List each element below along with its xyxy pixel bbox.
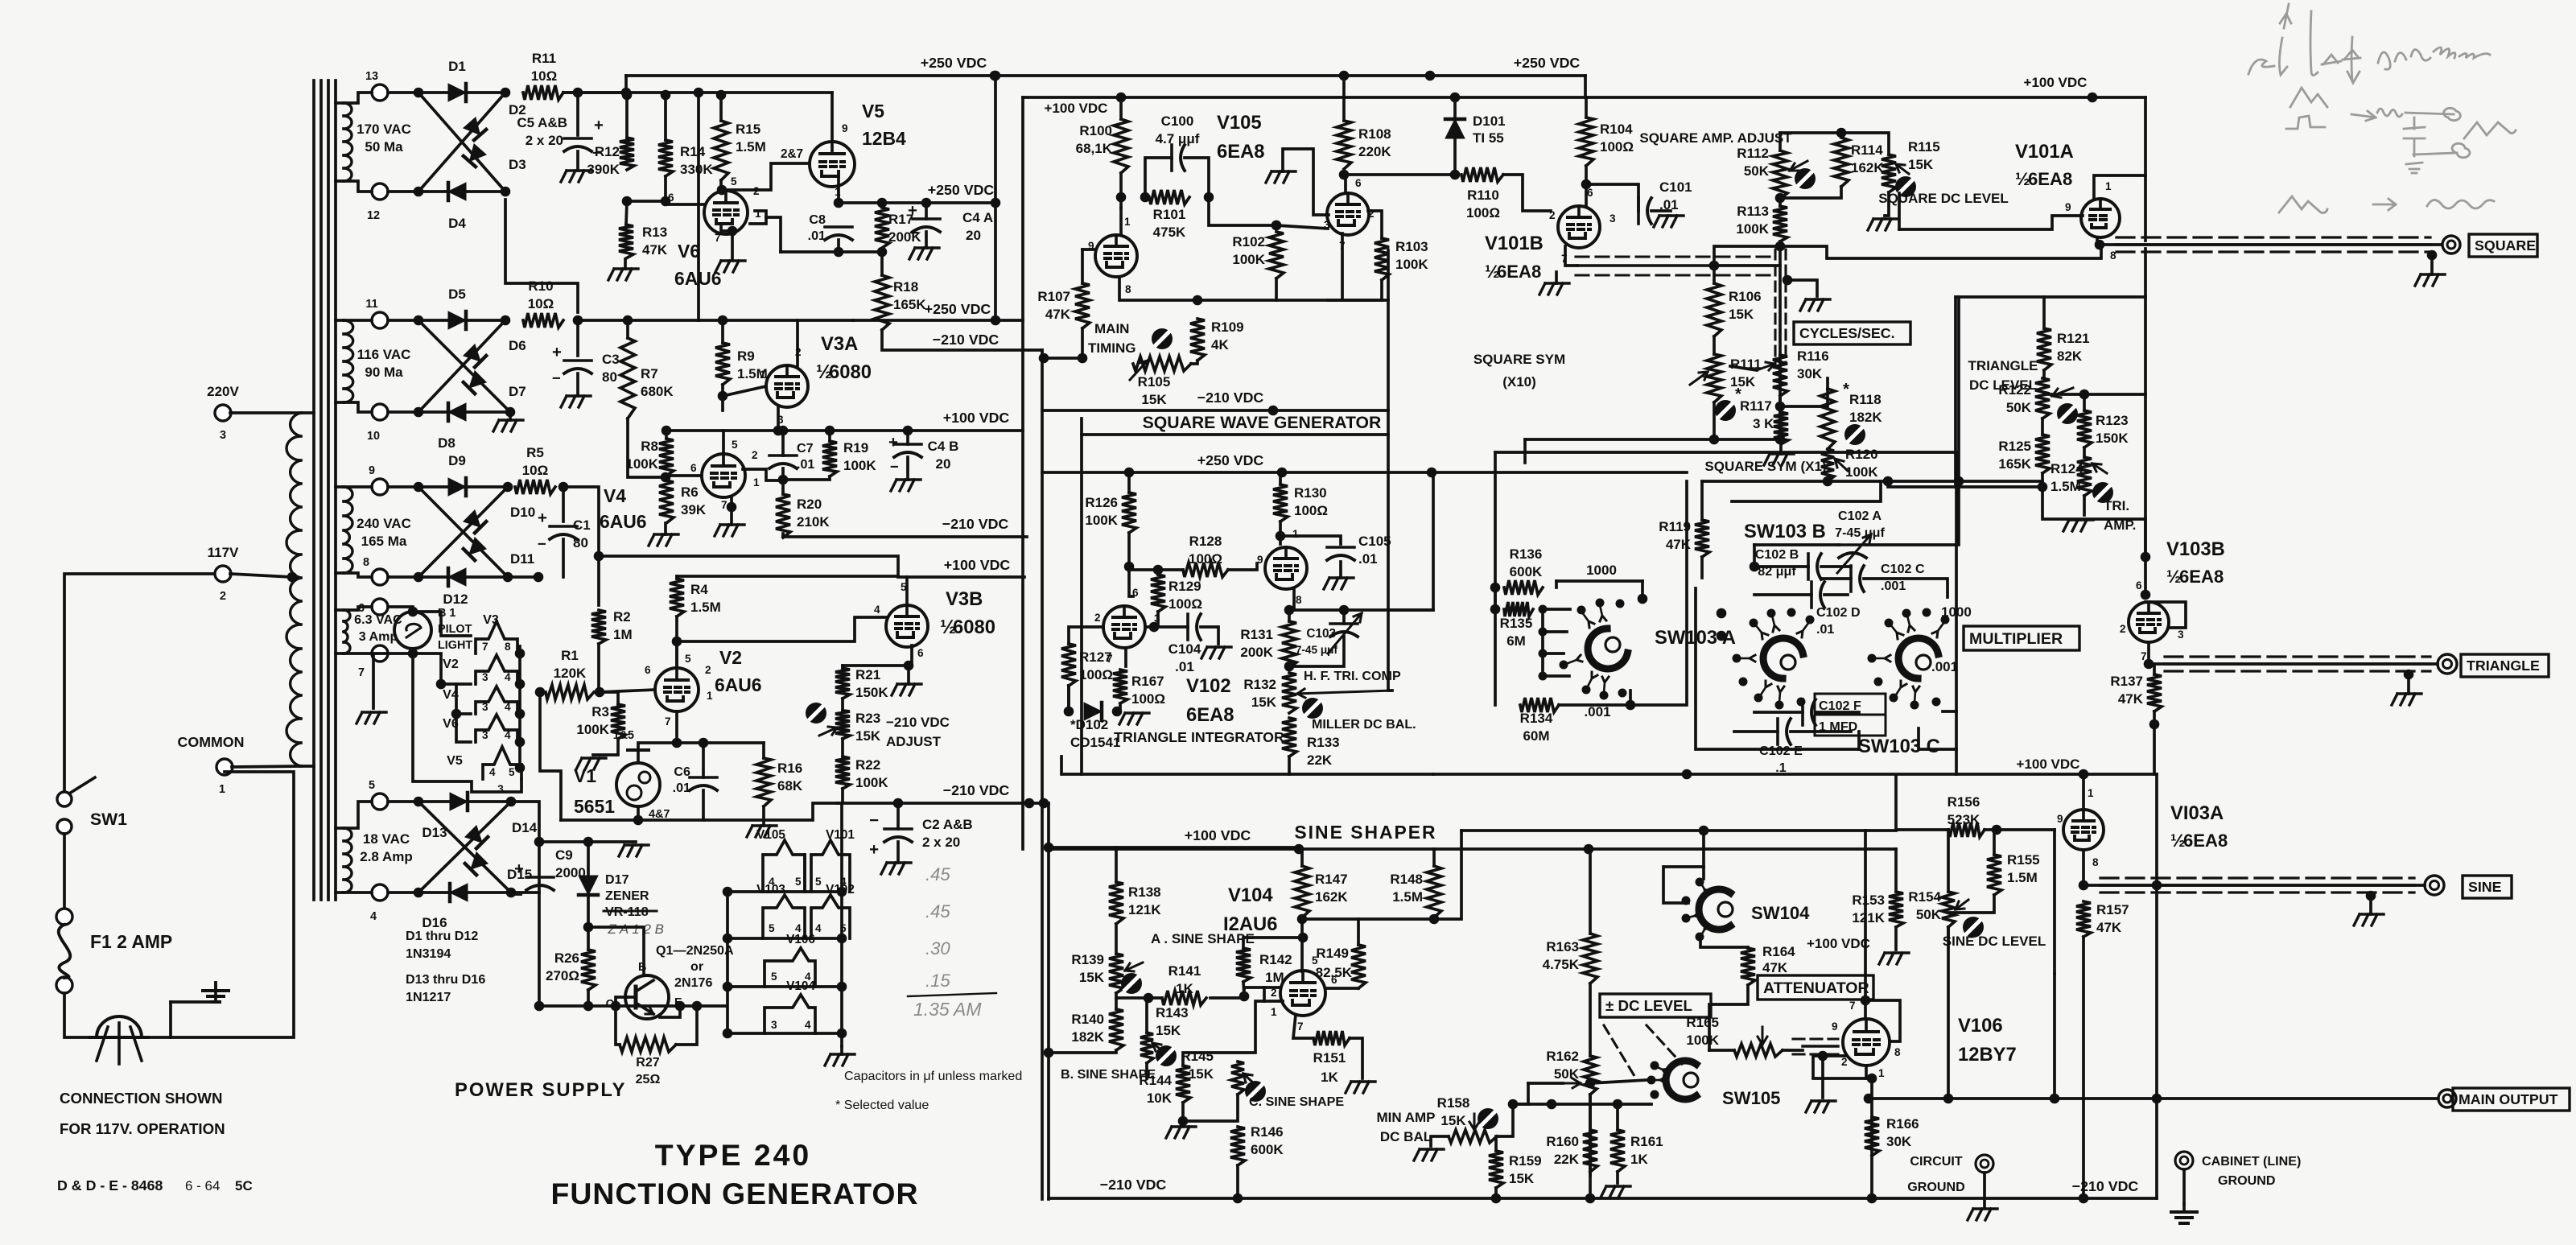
wire C1 bottom	[562, 539, 565, 577]
wire bridge2 diag A	[418, 320, 510, 412]
svg-text:R155: R155	[2007, 852, 2040, 868]
wire V5 to V4 left	[456, 684, 471, 714]
wire sec240 top	[344, 485, 372, 489]
wire V106 cathode drop	[1870, 1078, 1873, 1099]
svg-text:GROUND: GROUND	[2218, 1173, 2276, 1188]
wire rail to 1271 y398	[853, 319, 1023, 322]
diode D11	[464, 538, 486, 560]
junction V103B pin6	[2141, 590, 2151, 600]
label V2	[715, 647, 762, 695]
svg-text:SW105: SW105	[1722, 1088, 1780, 1108]
wire heater chain left	[413, 653, 471, 684]
junction -210 sq x1582	[1268, 406, 1279, 416]
wire term8 to bridge3	[388, 575, 418, 579]
svg-text:R157: R157	[2096, 902, 2129, 917]
wire coax shield gnd	[1821, 1056, 1824, 1098]
label R128 text	[1189, 534, 1222, 567]
svg-text:SINE SHAPER: SINE SHAPER	[1294, 822, 1436, 843]
wire sqsym rail	[1702, 480, 1888, 483]
wire V6 pin2 loop	[750, 211, 766, 224]
screw adj R124	[2092, 482, 2113, 503]
wire D101 bottom stub	[1453, 140, 1457, 175]
wire R100 tail	[1119, 173, 1123, 197]
wire R108 node to D101 node	[1344, 173, 1455, 176]
resistor R140 182K	[1071, 1009, 1123, 1050]
resistor R113 100K	[1736, 204, 1787, 241]
label -210 VDC c2	[943, 782, 1010, 798]
junction R161 top	[1613, 1099, 1623, 1110]
wire V103B pin3 loop	[2145, 602, 2186, 628]
wire R151 left	[1293, 1015, 1313, 1038]
svg-text:FUNCTION GENERATOR: FUNCTION GENERATOR	[551, 1177, 919, 1210]
svg-text:C100: C100	[1161, 113, 1194, 129]
junction R158 node	[1508, 1099, 1519, 1110]
junction R120 rail	[1823, 476, 1833, 487]
transistor Q1	[606, 943, 734, 1019]
svg-text:D9: D9	[448, 453, 466, 468]
junction 117V tap	[287, 572, 298, 583]
svg-text:8: 8	[505, 641, 511, 653]
svg-text:+: +	[908, 202, 917, 220]
wire R147 top	[1300, 849, 1304, 866]
wire R158 right	[1497, 1104, 1528, 1136]
note D13 thru D16	[406, 972, 485, 1004]
wire V2 plate up	[675, 641, 678, 668]
wire sec63 top	[344, 607, 372, 610]
wire linkage y623	[1732, 481, 1881, 501]
label V105	[1217, 112, 1265, 163]
wire R2 bottom	[597, 644, 600, 692]
junction swc rail x2096	[1682, 769, 1692, 780]
svg-text:4: 4	[874, 604, 880, 616]
svg-text:SW103 B: SW103 B	[1744, 521, 1826, 542]
svg-text:+: +	[538, 509, 547, 527]
svg-text:C8: C8	[809, 212, 826, 227]
svg-text:R147: R147	[1315, 872, 1348, 887]
label V104	[1223, 884, 1277, 935]
junction V103A plate	[2079, 769, 2089, 780]
wire C4B top	[906, 431, 909, 444]
wire C100 right	[1185, 158, 1209, 197]
label D6	[509, 338, 526, 353]
wire R113 node down	[1778, 246, 1782, 439]
svg-text:R133: R133	[1307, 735, 1340, 750]
wire sec116 bot	[344, 402, 372, 412]
svg-text:R4: R4	[690, 582, 708, 597]
junction R126 top	[1124, 468, 1135, 478]
wire plate node to V105	[1119, 197, 1123, 208]
resistor R157 47K	[2076, 901, 2129, 937]
wire R163 top	[1589, 849, 1592, 934]
resistor R126 100K	[1085, 493, 1136, 533]
svg-text:C101: C101	[1659, 179, 1692, 195]
wire R144 top	[1183, 1001, 1264, 1066]
svg-text:D11: D11	[510, 551, 534, 567]
wire R108 top	[1342, 76, 1346, 121]
svg-text:C103: C103	[1306, 627, 1336, 641]
wire R128 left	[1129, 568, 1183, 571]
svg-text:22K: 22K	[1307, 752, 1333, 768]
wire sw103a out right	[1630, 481, 1687, 705]
svg-text:3: 3	[2178, 629, 2184, 641]
boxed label SQUARE	[2469, 234, 2537, 257]
wire R113 node left	[1714, 246, 1780, 266]
wire C7 stub	[781, 431, 785, 456]
note capacitors	[844, 1069, 1022, 1083]
svg-text:165K: 165K	[893, 297, 926, 312]
junction R14 top	[661, 90, 671, 101]
wire SW103 box left	[1494, 452, 1497, 587]
junction R113 bottom	[1775, 241, 1786, 252]
junction bottom rail	[534, 1001, 545, 1012]
wire pin8 rail	[1289, 608, 1433, 612]
junction V103B top	[2141, 552, 2151, 563]
resistor R22 100K	[835, 756, 888, 790]
svg-text:50K: 50K	[2006, 400, 2032, 415]
svg-text:13: 13	[365, 70, 378, 83]
wire C102D right	[1824, 593, 1848, 596]
ground C104	[1201, 647, 1231, 658]
svg-text:R148: R148	[1390, 872, 1423, 887]
wire triangle box top	[1956, 295, 2145, 299]
wire R107 bottom	[1081, 328, 1084, 358]
svg-text:1K: 1K	[1630, 1152, 1648, 1167]
wire sec240 bot	[344, 573, 372, 577]
svg-text:165K: 165K	[1998, 456, 2031, 472]
label R124	[2050, 461, 2083, 494]
label SQUARE SYM X1	[1704, 459, 1826, 474]
label -210 VDC v5	[933, 332, 999, 348]
label .001 swc	[1931, 659, 1958, 674]
wire R20 bottom	[781, 534, 785, 537]
junction R142 node	[1298, 933, 1309, 943]
svg-text:50K: 50K	[1554, 1066, 1580, 1082]
heater diagram V106	[765, 933, 815, 987]
svg-text:D & D - E - 8468: D & D - E - 8468	[57, 1177, 163, 1193]
winding 170VAC	[336, 103, 411, 181]
svg-text:SQUARE SYM (X1): SQUARE SYM (X1)	[1704, 459, 1826, 474]
svg-text:V103B: V103B	[2166, 538, 2225, 560]
svg-text:D8: D8	[438, 435, 455, 451]
junction R137 bottom	[2149, 719, 2160, 730]
wire R16 top	[762, 743, 765, 758]
svg-text:R143: R143	[1156, 1005, 1189, 1020]
wire bridge4 diag A	[418, 802, 511, 893]
ground V101B	[1539, 272, 1569, 295]
svg-text:15K: 15K	[1156, 1023, 1181, 1038]
label R144	[1139, 1073, 1172, 1106]
svg-text:MIN AMP: MIN AMP	[1376, 1110, 1435, 1125]
label V103B	[2166, 538, 2225, 587]
label R122	[1998, 382, 2031, 415]
svg-text:121K: 121K	[1852, 910, 1885, 926]
junction +100 sine	[1044, 843, 1054, 853]
wire vertical x868	[697, 97, 700, 320]
svg-text:+: +	[869, 841, 879, 859]
svg-text:D5: D5	[448, 287, 466, 302]
label C2 polarity	[869, 812, 879, 859]
junction heater left V2	[436, 679, 447, 690]
label R111	[1730, 357, 1762, 390]
boxed label SINE	[2463, 876, 2512, 898]
svg-text:100Ω: 100Ω	[1168, 596, 1202, 612]
ground bridge2	[493, 414, 523, 431]
svg-text:100Ω: 100Ω	[1294, 503, 1328, 518]
wire +250 tri rail	[1282, 471, 1687, 474]
svg-text:5651: 5651	[574, 796, 615, 817]
heater jumper V3	[476, 621, 517, 653]
wire R124 bottom	[2083, 496, 2086, 515]
svg-text:20: 20	[936, 456, 951, 472]
wire sw103c bottom link	[1919, 728, 1956, 749]
svg-text:MULTIPLIER: MULTIPLIER	[1969, 630, 2063, 648]
label main timing	[1088, 321, 1136, 356]
svg-text:5: 5	[369, 779, 375, 792]
junction bottom rail	[583, 1001, 594, 1012]
svg-text:4: 4	[505, 701, 511, 713]
junction C2 node	[893, 798, 904, 809]
wire R121-R122	[2042, 370, 2046, 378]
resistor R110 100ohm	[1461, 167, 1503, 182]
ground R144	[1166, 1127, 1196, 1138]
wire C103 top stub	[1342, 610, 1346, 624]
svg-text:R131: R131	[1240, 627, 1273, 642]
wire cathode node right	[839, 201, 995, 204]
wire R159 top	[1494, 1136, 1498, 1151]
junction +100 x2600	[2088, 93, 2098, 103]
ground C101	[1654, 216, 1684, 227]
wire C102F left	[1754, 711, 1803, 714]
junction C102B left	[1750, 562, 1760, 572]
wire R148 node up right	[1434, 831, 1461, 919]
wire C104 right	[1201, 627, 1218, 644]
label 1000 swc	[1941, 604, 1972, 620]
svg-text:LIGHT: LIGHT	[438, 639, 472, 652]
svg-text:1: 1	[1292, 528, 1299, 540]
svg-text:R115: R115	[1908, 139, 1940, 155]
wire V103B cathode	[2147, 642, 2150, 664]
junction rail x778	[621, 88, 632, 98]
label D12	[443, 592, 468, 607]
junction V102 pin3 node	[1149, 622, 1160, 633]
capacitor C6 .01	[690, 777, 717, 790]
wire R164 bottom	[1709, 985, 1748, 1050]
label C102E text	[1759, 744, 1803, 775]
wire V1 bottom rail	[561, 818, 704, 822]
wire R161 top	[1616, 1104, 1619, 1130]
resistor R10 10ohm	[523, 278, 563, 328]
wire bridge1 down to rect2 rail	[505, 200, 578, 312]
label C4B	[928, 439, 959, 472]
diode D15	[465, 852, 488, 875]
wire -210 bottom rail	[1049, 1197, 2157, 1200]
junction square out	[2095, 240, 2105, 250]
svg-text:680K: 680K	[641, 384, 674, 399]
svg-text:182K: 182K	[1849, 410, 1882, 425]
wire V105 cathode to rail	[1119, 277, 1197, 300]
wire Q1 collector	[616, 997, 628, 1006]
svg-text:2: 2	[1549, 209, 1556, 221]
svg-text:5: 5	[795, 876, 802, 888]
junction sine shield gnd	[2366, 891, 2376, 901]
svg-text:1.5M: 1.5M	[690, 600, 721, 615]
rotary switch SW103 A	[1588, 629, 1627, 669]
svg-text:+250 VDC: +250 VDC	[921, 55, 987, 71]
svg-text:R108: R108	[1358, 126, 1391, 142]
svg-text:50K: 50K	[1744, 163, 1770, 179]
wire V3B plate	[905, 577, 909, 605]
wire R145 wires	[1183, 1095, 1238, 1121]
label V101A	[2015, 141, 2074, 189]
wire SW103C out	[1943, 452, 1956, 711]
terminal 117V pin 2	[208, 545, 239, 603]
svg-text:2: 2	[1841, 1056, 1848, 1068]
svg-text:B: B	[638, 961, 646, 974]
svg-text:3 Amp: 3 Amp	[359, 629, 398, 644]
svg-text:2 x 20: 2 x 20	[922, 835, 960, 850]
wire bus x2431 down	[1955, 711, 1958, 774]
svg-text:220V: 220V	[207, 384, 239, 399]
resistor R130 100ohm	[1273, 484, 1328, 521]
label -210 VDC right	[2072, 1178, 2139, 1194]
svg-text:100K: 100K	[576, 722, 609, 737]
wire R111 bottom rail	[1525, 438, 1780, 441]
resistor R9 1.5M	[715, 343, 768, 385]
wire gnd stub	[588, 840, 636, 843]
drawing number	[57, 1177, 253, 1193]
label R112	[1737, 146, 1769, 179]
diode D2	[464, 117, 486, 140]
screw adj R112	[1795, 168, 1816, 189]
wire V105R pin3 wire	[1276, 225, 1328, 229]
svg-text:R139: R139	[1071, 952, 1104, 967]
junction R102 top	[1272, 221, 1282, 231]
wire R155 top	[1993, 830, 1996, 855]
wire R154 drop	[1947, 927, 1950, 1099]
svg-text:170 VAC: 170 VAC	[357, 122, 411, 137]
resistor R2 1M	[591, 609, 633, 644]
junction bottom rail	[675, 1001, 686, 1012]
svg-text:100K: 100K	[1395, 257, 1428, 272]
svg-text:C2 A&B: C2 A&B	[922, 817, 973, 832]
wire R156 right to grid	[1997, 828, 2055, 831]
wire bridge3 bottom	[418, 575, 538, 579]
junction C4A top	[921, 198, 932, 208]
wire term6 to pilot	[388, 607, 413, 612]
label V6	[674, 241, 722, 289]
svg-text:100Ω: 100Ω	[1189, 551, 1222, 567]
ground R158	[1414, 1149, 1444, 1160]
label C104 text	[1168, 641, 1201, 674]
svg-text:2: 2	[705, 664, 711, 676]
svg-text:R118: R118	[1849, 392, 1882, 407]
ground at C9 node	[619, 845, 649, 856]
screw adj R158	[1478, 1108, 1498, 1129]
wire bus x1303	[1047, 803, 1050, 1199]
svg-text:R116: R116	[1797, 348, 1829, 364]
label C102F boxed	[1815, 694, 1886, 736]
wire sec116 top	[344, 319, 372, 322]
screw adj R111	[1715, 400, 1736, 421]
screw adj R154	[1963, 917, 1984, 938]
label R151 text	[1313, 1050, 1346, 1085]
wire pilot top to V3	[413, 612, 471, 636]
svg-text:4.75K: 4.75K	[1543, 957, 1580, 972]
junction R140 bottom	[1044, 1048, 1054, 1058]
wire sym rail down left	[1523, 439, 1527, 463]
resistor R108 220K	[1337, 121, 1391, 169]
wire +250 step down	[1584, 76, 1587, 97]
label R116	[1797, 348, 1829, 381]
pot R120 100K	[1821, 449, 1848, 481]
label MILLER DC BAL	[1312, 717, 1416, 732]
label R154	[1908, 889, 1941, 922]
diode D13	[450, 793, 468, 810]
svg-text:1: 1	[1124, 216, 1131, 228]
wire bridge4 out top	[511, 802, 539, 1006]
junction V106 plate node	[1861, 996, 1871, 1006]
label SW103 B	[1744, 521, 1826, 542]
winding 116VAC	[336, 320, 410, 402]
pot R112 50K	[1773, 150, 1807, 199]
svg-text:V106: V106	[1958, 1015, 2003, 1037]
wire R115 bottom	[1885, 192, 1889, 216]
svg-text:1: 1	[753, 476, 760, 489]
svg-text:100K: 100K	[1736, 221, 1769, 237]
wire R27 loop	[616, 1006, 620, 1045]
label D10	[510, 505, 535, 520]
wire R158 left	[1431, 1136, 1449, 1146]
junction x2680 sine	[2152, 880, 2162, 891]
wire D101 top	[1453, 97, 1457, 117]
junction sw104 top	[1699, 826, 1709, 836]
wire R126 top	[1127, 472, 1131, 493]
svg-text:90 Ma: 90 Ma	[365, 365, 403, 380]
ground sine shield	[2354, 898, 2384, 926]
wire R4 top	[675, 576, 678, 579]
svg-text:R158: R158	[1437, 1095, 1470, 1111]
wire V104 pin1 bracket	[1263, 987, 1266, 1001]
wire R15 bot to V5 grid	[722, 163, 810, 190]
wire C102B right	[1821, 565, 1851, 568]
coax TRIANGLE output	[2165, 657, 2430, 671]
junction sw103a out	[1626, 700, 1636, 711]
svg-text:TRIANGLE: TRIANGLE	[1968, 358, 2038, 373]
svg-text:D101: D101	[1473, 113, 1506, 129]
svg-text:.01: .01	[673, 781, 690, 795]
junction bridge3	[503, 482, 513, 493]
wire supply bottom rail	[539, 1004, 726, 1008]
svg-text:D4: D4	[448, 216, 466, 231]
wire bus x2680	[2155, 774, 2158, 1198]
wire V101A grid	[1899, 216, 2083, 229]
junction R131 bottom	[1284, 662, 1295, 672]
wire C7 R19 bottom join	[783, 468, 830, 480]
junction V3B cathode	[904, 661, 914, 671]
note connection	[60, 1090, 225, 1137]
svg-text:1.5M: 1.5M	[1392, 889, 1423, 905]
wire R122-R125	[2041, 418, 2044, 435]
svg-text:−: −	[909, 225, 919, 242]
wire R125-R124 node	[2041, 473, 2044, 487]
wire pin8 to bus	[1388, 472, 1433, 610]
ground V4 cathode	[715, 512, 744, 536]
terminal pin 12	[367, 183, 388, 222]
coax SINE output	[2100, 878, 2414, 893]
svg-text:C102 A: C102 A	[1838, 509, 1882, 523]
svg-text:C9: C9	[555, 847, 573, 863]
junction C1 bottom	[534, 572, 544, 583]
